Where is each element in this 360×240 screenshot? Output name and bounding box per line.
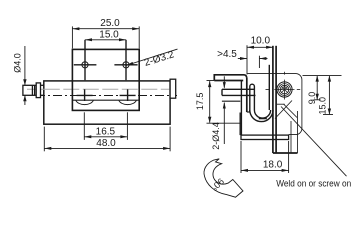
top flange [214,75,246,81]
svg-text:16.5: 16.5 [96,126,116,137]
ghost outline [248,74,302,153]
knuckle relief arc right [119,100,137,104]
dimension Ø4.0 [24,46,26,105]
plate inner bottom line [72,99,139,101]
90 deg rotation arrow [204,159,243,197]
svg-text:Ø4.0: Ø4.0 [12,53,22,73]
dimension 17.5 [207,81,242,124]
label 2-Ø3.2 leader [126,49,177,65]
dimension >4.5 [238,56,268,68]
barrel wrap [250,65,273,122]
dimension 10.0 [247,45,273,74]
top hole right [114,40,137,80]
dimension 18.0 [241,141,289,173]
svg-text:15.0: 15.0 [99,29,119,40]
dimension 16.5 [84,112,127,140]
slot bottom [247,111,250,113]
curl strip [250,84,255,112]
svg-text:18.0: 18.0 [263,159,283,170]
svg-text:10.0: 10.0 [251,36,271,47]
svg-text:17.5: 17.5 [195,93,205,111]
body gray seam line [27,88,170,90]
mounting plate [72,49,139,110]
top hole left [74,40,97,80]
svg-text:9.0: 9.0 [307,92,317,105]
weld plate [273,46,298,153]
weld leader [281,107,347,177]
bottom flange [241,135,289,139]
knuckle relief arc left [76,100,94,104]
dimension 48.0 [44,127,170,152]
tongue [222,89,256,101]
svg-text:15.0: 15.0 [317,97,327,115]
svg-text:2-Ø4.4: 2-Ø4.4 [211,122,221,150]
dimension 9.0 [303,76,342,100]
descending walls [240,78,247,136]
dimension Ø4.4 arrows [223,76,225,144]
svg-text:48.0: 48.0 [96,138,116,149]
hinge body [44,81,170,124]
left pin [23,83,44,98]
weld leader tick [277,103,285,105]
dimension 15.0 right [323,76,333,115]
svg-text:25.0: 25.0 [100,18,120,29]
right pin cap [170,79,176,98]
dimension 25.0 [72,26,139,48]
bottom hole right [120,89,136,101]
svg-text:>4.5: >4.5 [217,49,237,60]
bottom hole left [77,89,93,101]
svg-text:Weld on or screw on: Weld on or screw on [276,178,351,189]
dimension 15.0 [85,39,126,41]
dashed centerline [36,95,177,97]
knurled screw circle [266,72,301,100]
